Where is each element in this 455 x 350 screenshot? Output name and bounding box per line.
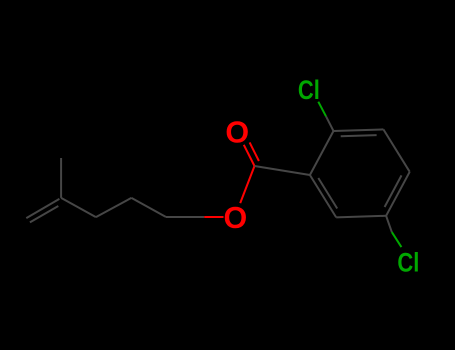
benzene ring bond C4-C5 xyxy=(386,172,410,216)
bond CH2-O gray half xyxy=(166,216,204,218)
bond C4=CH2 double bond main line xyxy=(26,199,59,218)
bond C=O double bond main line xyxy=(244,145,255,166)
bond C5-Cl(bottom) green half xyxy=(392,232,402,247)
bond C(=O)-C1 ipso xyxy=(255,166,310,175)
benzene inner aromatic line C4-C5 xyxy=(385,175,402,207)
svg-text:O: O xyxy=(225,116,249,150)
bond C4=CH2 double bond inner line xyxy=(30,206,58,222)
bond C4-C3 chain xyxy=(61,198,96,217)
bond C=O double bond second line xyxy=(250,142,259,161)
benzene ring bond C6-C1 xyxy=(310,175,336,217)
benzene ring bond C5-C6 xyxy=(336,216,386,218)
benzene inner aromatic line C6-C1 xyxy=(318,178,337,209)
bond C2-C1 chain xyxy=(131,198,166,217)
bond C5-Cl(bottom) gray half xyxy=(386,216,392,232)
benzene inner aromatic line C2-C3 xyxy=(341,135,377,136)
bond C2-Cl(top) gray half xyxy=(326,116,334,131)
svg-text:Cl: Cl xyxy=(397,247,419,277)
benzene ring bond C3-C4 xyxy=(383,129,409,171)
svg-text:O: O xyxy=(224,201,248,235)
bond C4-CH3 methyl xyxy=(60,158,62,198)
svg-text:Cl: Cl xyxy=(298,75,320,105)
bond CH2-O red half xyxy=(204,216,223,218)
benzene ring bond C1-C2 xyxy=(310,131,334,175)
bond C2-Cl(top) green half xyxy=(318,102,326,117)
bond C3-C2 chain xyxy=(96,198,131,217)
bond O-C(=O) ester xyxy=(240,166,254,203)
benzene ring bond C2-C3 xyxy=(334,129,384,131)
